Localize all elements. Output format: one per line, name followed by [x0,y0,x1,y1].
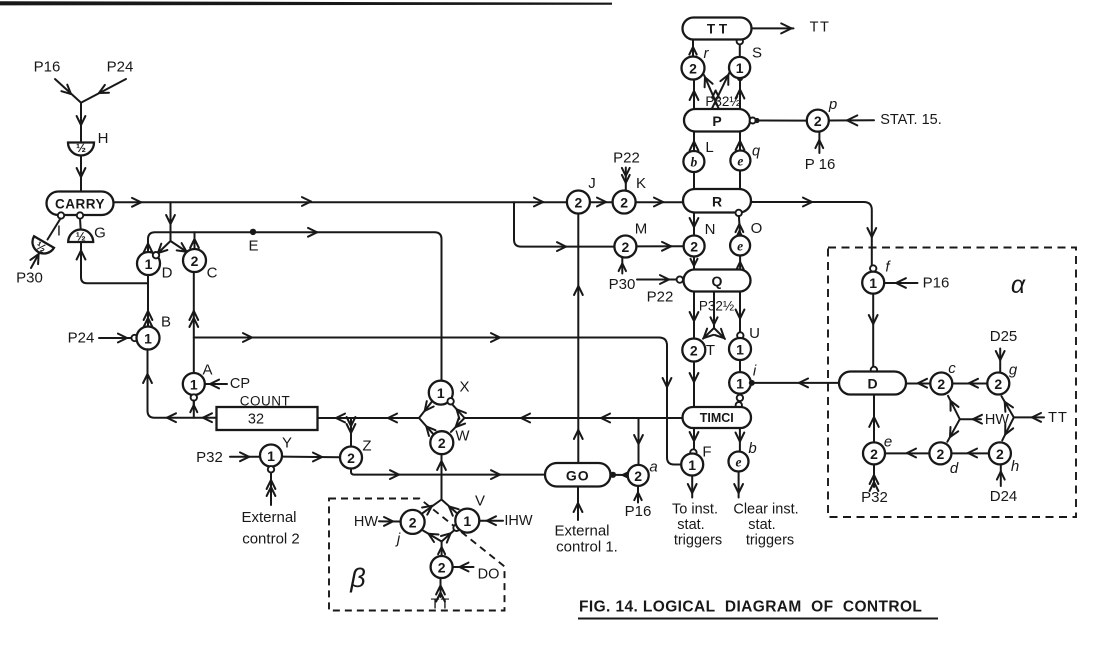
svg-text:DO: DO [478,567,500,583]
svg-text:T: T [706,342,715,359]
svg-text:1: 1 [145,256,153,272]
svg-text:GO: GO [566,467,590,483]
svg-text:2: 2 [622,239,630,255]
svg-text:32: 32 [248,412,264,428]
svg-text:d: d [950,460,959,477]
svg-text:X: X [459,379,469,396]
svg-text:P30: P30 [609,276,636,293]
svg-text:P32½: P32½ [705,94,740,109]
svg-text:α: α [1011,271,1026,299]
svg-text:2: 2 [870,446,878,462]
svg-text:2: 2 [438,435,446,451]
svg-text:C: C [207,265,218,282]
svg-text:e: e [737,239,743,254]
svg-text:P32½: P32½ [699,299,734,314]
svg-text:P32: P32 [861,489,888,506]
svg-text:e: e [737,154,743,169]
svg-text:O: O [751,220,763,237]
svg-text:F: F [702,444,711,461]
svg-text:TT: TT [1048,410,1068,426]
svg-text:D24: D24 [990,488,1018,505]
svg-text:control 1.: control 1. [556,539,618,556]
svg-text:Q: Q [712,273,723,289]
svg-text:D25: D25 [990,328,1018,345]
svg-text:J: J [588,175,596,192]
svg-text:TIMCI: TIMCI [700,411,734,425]
svg-text:2: 2 [347,450,355,466]
svg-text:e: e [884,434,892,451]
svg-text:2: 2 [409,514,417,530]
svg-text:P16: P16 [34,59,61,76]
svg-text:STAT. 15.: STAT. 15. [880,112,942,128]
svg-text:a: a [649,459,657,476]
svg-text:r: r [704,45,710,62]
svg-text:triggers: triggers [746,533,794,549]
svg-text:q: q [752,144,760,160]
svg-text:2: 2 [996,446,1004,462]
svg-text:V: V [475,493,485,510]
svg-text:Z: Z [362,438,371,455]
svg-text:B: B [161,314,171,331]
svg-text:CARRY: CARRY [55,196,105,211]
svg-text:FIG. 14. LOGICAL DIAGRAM OF: FIG. 14. LOGICAL DIAGRAM OF CONTROL [579,599,922,616]
svg-text:1: 1 [144,331,152,347]
svg-text:1: 1 [869,275,877,291]
svg-text:G: G [94,225,106,242]
svg-text:2: 2 [575,195,583,211]
svg-text:1: 1 [267,448,275,464]
svg-text:P30: P30 [16,270,43,287]
svg-text:1: 1 [736,60,744,76]
svg-text:½: ½ [76,141,86,155]
svg-text:2: 2 [690,239,698,255]
svg-text:2: 2 [690,343,698,359]
svg-text:To inst.: To inst. [672,502,718,518]
svg-text:P24: P24 [68,330,95,347]
svg-text:I: I [57,223,61,240]
svg-text:h: h [1011,458,1019,475]
svg-text:β: β [349,563,365,593]
svg-text:1: 1 [688,457,696,473]
svg-text:2: 2 [994,376,1002,392]
svg-text:2: 2 [689,61,697,77]
svg-text:L: L [705,139,713,156]
svg-text:1: 1 [190,377,198,393]
svg-text:i: i [753,363,757,380]
svg-text:1: 1 [463,513,471,529]
svg-text:TT: TT [431,597,451,613]
svg-text:P 16: P 16 [805,156,836,173]
svg-text:External: External [241,509,296,526]
svg-text:2: 2 [937,376,945,392]
svg-text:P24: P24 [107,59,134,76]
svg-text:stat.: stat. [748,517,775,533]
svg-text:1: 1 [736,375,744,391]
svg-text:HW: HW [354,514,378,530]
svg-text:IHW: IHW [504,513,533,529]
svg-text:c: c [948,360,956,377]
svg-text:1: 1 [736,342,744,358]
svg-text:2: 2 [438,560,446,576]
svg-text:f: f [885,259,891,276]
svg-text:Clear inst.: Clear inst. [733,502,798,518]
svg-text:P22: P22 [647,289,674,306]
svg-text:CP: CP [230,376,250,392]
svg-text:Y: Y [282,435,292,452]
svg-text:P22: P22 [613,150,640,167]
svg-text:E: E [248,237,258,254]
svg-text:2: 2 [191,253,199,269]
svg-text:triggers: triggers [674,533,722,549]
svg-text:b: b [691,155,698,170]
svg-text:TT: TT [810,20,831,36]
svg-text:2: 2 [814,113,822,129]
svg-text:D: D [162,265,173,282]
svg-text:e: e [736,455,742,470]
svg-text:j: j [395,531,401,548]
svg-text:2: 2 [937,446,945,462]
svg-text:1: 1 [437,385,445,401]
svg-text:p: p [828,96,837,113]
svg-text:2: 2 [620,195,628,211]
svg-text:External: External [554,523,609,540]
svg-text:U: U [749,325,760,342]
svg-text:P16: P16 [923,275,950,292]
svg-text:g: g [1009,362,1018,379]
svg-text:K: K [636,175,646,192]
svg-text:A: A [202,362,212,379]
svg-text:D: D [867,376,877,392]
svg-text:P32: P32 [196,449,223,466]
svg-text:M: M [635,221,648,238]
svg-text:stat.: stat. [677,517,704,533]
svg-text:T T: T T [707,22,728,37]
svg-text:P: P [712,113,721,129]
svg-text:R: R [712,193,722,209]
svg-text:N: N [705,221,716,238]
svg-text:P16: P16 [625,503,652,520]
svg-text:2: 2 [634,468,642,484]
svg-text:S: S [752,45,762,62]
svg-text:control 2: control 2 [242,531,300,548]
svg-text:H: H [98,130,109,147]
svg-text:b: b [748,440,756,457]
svg-text:W: W [455,428,470,445]
